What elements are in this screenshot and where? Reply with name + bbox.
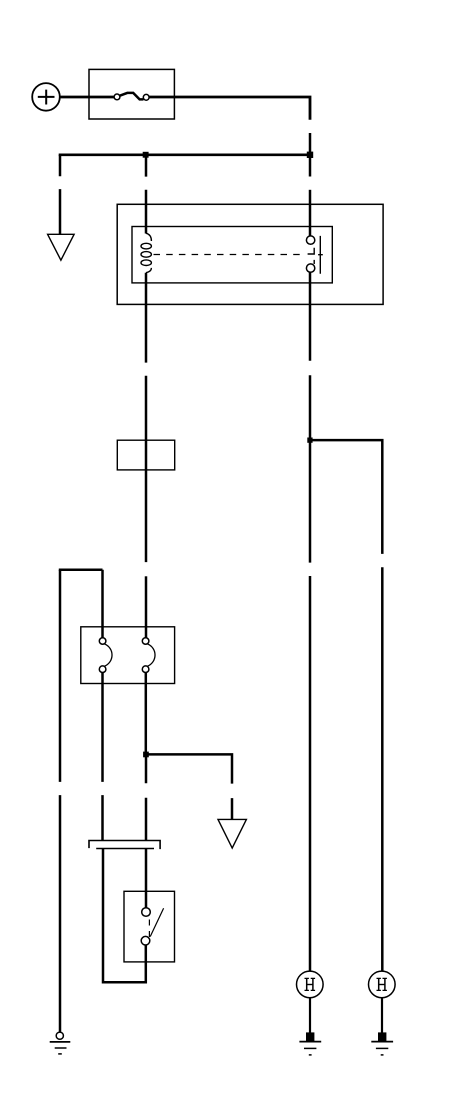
wire branch to lamp H2 — [310, 440, 382, 971]
ground G1 — [50, 1042, 71, 1054]
wire B+ to fuse — [60, 96, 115, 99]
headlamp H2 — [369, 971, 396, 998]
wire H2 to ground — [381, 998, 383, 1033]
relay contact bar — [318, 236, 323, 274]
battery positive terminal B+ — [32, 83, 60, 111]
wire right drop segment to relay contact — [309, 190, 312, 236]
ground terminal blob H2 — [378, 1032, 386, 1041]
wire to connector pin B — [145, 576, 148, 637]
relay inner box — [132, 227, 332, 283]
wire coil to connector C1 — [145, 273, 148, 562]
switch pin bottom — [141, 936, 150, 945]
wire fuse to right drop — [149, 97, 310, 120]
connector C1 box — [117, 440, 174, 470]
ground terminal ring — [56, 1032, 63, 1039]
relay moving contact arm — [308, 248, 315, 264]
wire pin A down through inline connector — [103, 673, 146, 983]
connector pin pair left — [99, 638, 112, 673]
bus wire y=570 — [59, 568, 103, 571]
wire to arrow terminal A1 — [59, 155, 62, 234]
arrow terminal A2 (off-page connector) — [218, 819, 246, 848]
junction node right branch — [307, 438, 312, 443]
wire pin B down to junction — [145, 673, 148, 755]
wire H1 to ground — [309, 998, 311, 1033]
wire bus to connector pin A — [101, 570, 104, 638]
ground terminal blob H1 — [306, 1032, 314, 1041]
wire junction down to switch — [145, 754, 148, 907]
ground G3 — [371, 1042, 393, 1055]
headlamp H1 — [297, 971, 324, 998]
ground G2 — [299, 1042, 321, 1055]
junction node switch branch — [143, 752, 149, 758]
junction node at coil feed — [143, 152, 149, 158]
switch pin top — [142, 908, 151, 917]
fuse F1 — [114, 93, 149, 100]
wire branch to arrow terminal A2 — [146, 754, 232, 819]
wire relay output down right — [309, 272, 312, 971]
fuse box — [89, 69, 174, 119]
relay fixed contact top — [306, 236, 314, 244]
connector junction box — [81, 627, 175, 684]
wire right drop segment — [309, 133, 312, 177]
relay fixed contact bottom — [306, 264, 314, 272]
connector pin pair right — [142, 638, 155, 673]
switch lever — [150, 908, 163, 936]
wire left down to ground G1 — [59, 570, 62, 1032]
wire to relay coil — [145, 155, 148, 234]
arrow terminal A1 (off-page connector) — [48, 234, 75, 260]
junction node at right drop — [307, 152, 313, 158]
inline connector bar — [89, 841, 160, 850]
relay actuator dashed link — [154, 254, 303, 256]
relay outer box — [117, 204, 383, 304]
switch box S1 — [124, 891, 175, 962]
switch dashed link — [148, 920, 150, 938]
bus wire node row y=155 — [59, 154, 312, 157]
relay coil L1 — [141, 233, 151, 273]
